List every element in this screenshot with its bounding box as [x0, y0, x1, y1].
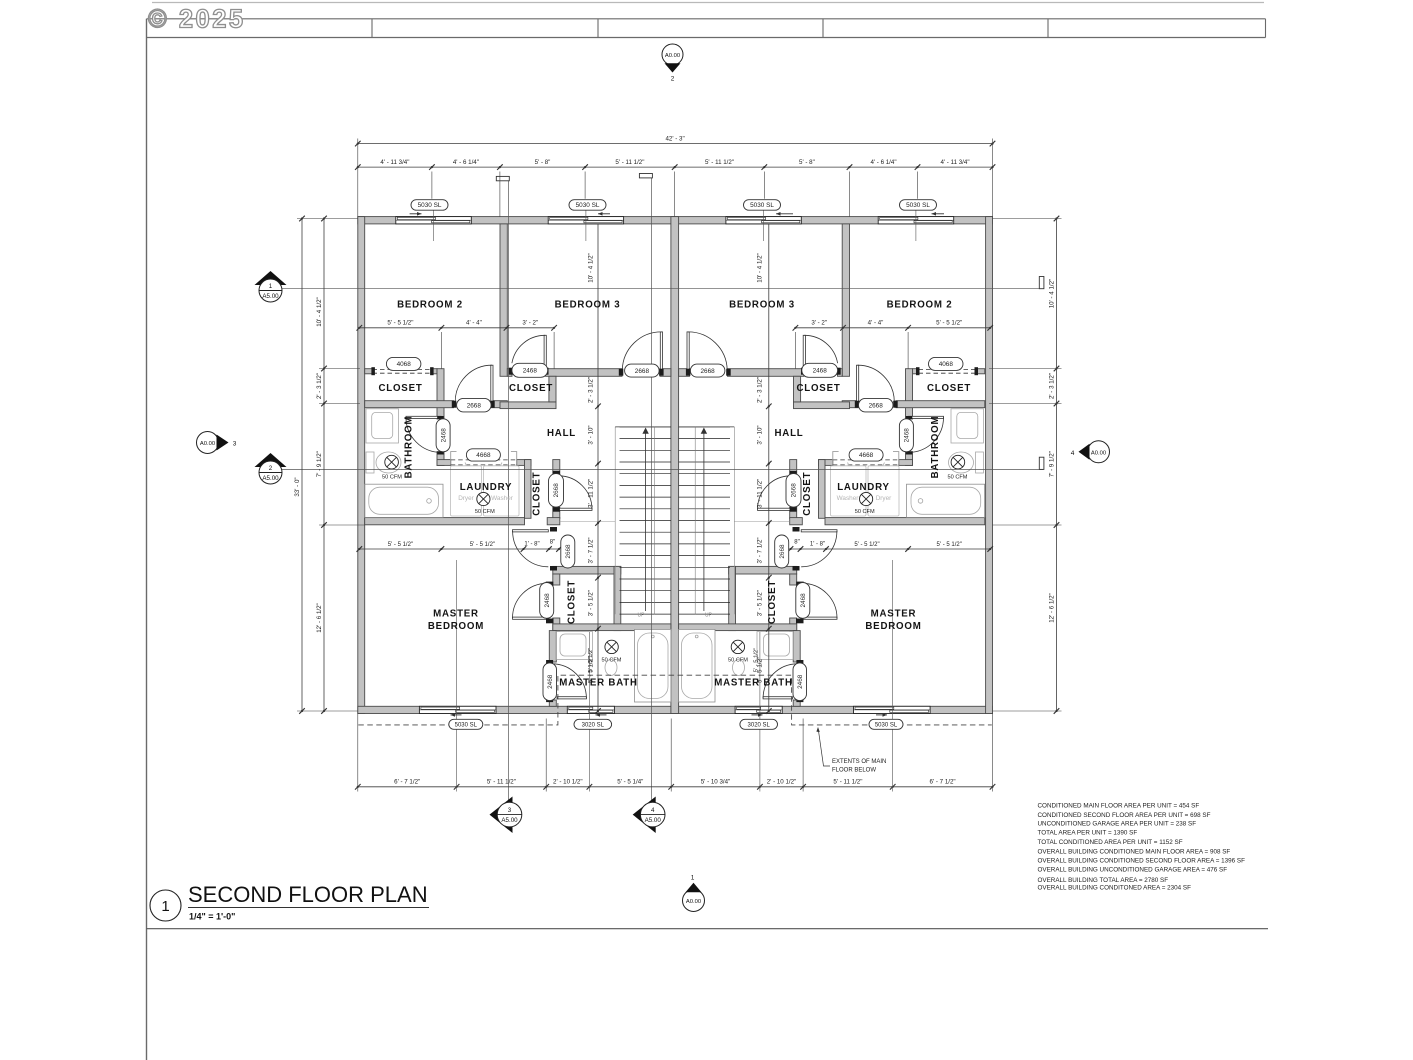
wall exterior left — [358, 217, 365, 714]
bathroom vanity u2 — [951, 409, 984, 443]
bathroom vanity u1 — [366, 409, 399, 443]
svg-text:2668: 2668 — [467, 402, 482, 409]
hall stair boundary line u2 — [734, 521, 789, 523]
svg-text:5' - 5 1/2": 5' - 5 1/2" — [936, 320, 962, 327]
master bath vanity u1 — [557, 632, 593, 660]
svg-text:5' - 5 1/4": 5' - 5 1/4" — [617, 779, 643, 786]
svg-text:EXTENTS OF MAIN: EXTENTS OF MAIN — [832, 759, 886, 765]
wall hall closet east upper u1 — [553, 460, 560, 475]
svg-text:A5.00: A5.00 — [262, 293, 279, 300]
svg-text:2668: 2668 — [791, 483, 798, 498]
wall closet-corridor divider upper u2 — [906, 369, 913, 419]
door bifold 4068 closet dashed u1 — [373, 368, 432, 370]
svg-text:50 CFM: 50 CFM — [602, 658, 622, 664]
svg-text:10' - 4 1/2": 10' - 4 1/2" — [316, 297, 323, 327]
callout marker A0.00 1 bottom — [683, 890, 705, 912]
svg-text:TOTAL CONDITIONED AREA PER UNI: TOTAL CONDITIONED AREA PER UNIT = 1152 S… — [1038, 839, 1183, 846]
svg-text:2468: 2468 — [440, 428, 447, 443]
label window 5030 SL u1 right — [569, 200, 606, 211]
svg-text:A0.00: A0.00 — [665, 53, 680, 59]
door 2468 bedroom3 closet u2 — [803, 335, 805, 368]
stairs treads u2 — [679, 426, 730, 428]
svg-text:33' - 0": 33' - 0" — [294, 477, 301, 496]
dimension right extension lines — [993, 218, 1062, 220]
svg-text:4068: 4068 — [397, 361, 412, 368]
svg-text:CONDITIONED SECOND FLOOR AREA: CONDITIONED SECOND FLOOR AREA PER UNIT =… — [1038, 812, 1211, 819]
svg-text:1' - 8": 1' - 8" — [810, 542, 825, 548]
svg-text:FLOOR BELOW: FLOOR BELOW — [832, 768, 876, 774]
label door 2668 bed3 u2 — [690, 364, 725, 377]
svg-text:CLOSET: CLOSET — [802, 472, 813, 516]
label window 5030 SL bottom u1 — [449, 719, 483, 729]
wall corridor south stub u2 — [842, 401, 858, 408]
svg-text:7' - 9 1/2": 7' - 9 1/2" — [316, 451, 323, 477]
label door 2668 bed2 u2 — [859, 398, 894, 412]
stairs up arrow u1 — [645, 430, 647, 611]
svg-text:© 2025: © 2025 — [148, 6, 246, 34]
dimension top segments — [358, 166, 993, 168]
svg-text:CLOSET: CLOSET — [532, 472, 543, 516]
label door 2668 master bedroom u2 — [775, 535, 789, 568]
svg-text:2: 2 — [269, 465, 273, 472]
svg-text:BEDROOM 2: BEDROOM 2 — [397, 300, 463, 311]
svg-text:50 CFM: 50 CFM — [382, 475, 402, 481]
svg-text:5' - 11 1/2": 5' - 11 1/2" — [833, 779, 862, 786]
svg-text:10' - 4 1/2": 10' - 4 1/2" — [757, 253, 764, 283]
callout marker A0.00 3 left — [197, 432, 219, 454]
svg-text:OVERALL BUILDING UNCONDITIONED: OVERALL BUILDING UNCONDITIONED GARAGE AR… — [1038, 867, 1228, 874]
wall bed3 closet east u1 — [549, 376, 556, 402]
svg-text:OVERALL BUILDING TOTAL AREA =: OVERALL BUILDING TOTAL AREA = 2780 SF — [1038, 877, 1169, 884]
door 2468 master closet u1 — [513, 617, 548, 619]
wall master bedroom north u2 — [825, 518, 985, 525]
wall laundry north stub right u1 — [517, 460, 531, 466]
svg-text:4068: 4068 — [939, 361, 954, 368]
svg-text:2' - 3 1/2": 2' - 3 1/2" — [757, 377, 764, 403]
svg-text:BATHROOM: BATHROOM — [404, 416, 415, 479]
svg-text:5030 SL: 5030 SL — [455, 722, 478, 728]
svg-text:8": 8" — [550, 540, 555, 546]
svg-text:2668: 2668 — [779, 544, 786, 559]
stairs walk line u2 — [694, 427, 696, 614]
svg-text:3' - 7 1/2": 3' - 7 1/2" — [757, 537, 764, 563]
svg-text:2668: 2668 — [635, 368, 650, 375]
svg-text:5' - 8": 5' - 8" — [535, 159, 551, 166]
svg-text:2468: 2468 — [544, 593, 551, 608]
wall hall north mid u1 — [546, 369, 622, 377]
svg-text:12' - 6 1/2": 12' - 6 1/2" — [1048, 593, 1055, 623]
master bath exhaust fan u1 — [605, 640, 618, 653]
svg-text:3' - 2": 3' - 2" — [811, 320, 827, 327]
wall party center — [671, 217, 679, 714]
section line 2 horizontal — [282, 468, 1043, 470]
dimension left extension lines — [297, 218, 358, 220]
dimension hall vertical u2 — [768, 224, 770, 406]
svg-text:2668: 2668 — [700, 368, 715, 375]
svg-text:5030 SL: 5030 SL — [875, 722, 898, 728]
label door 2468 bed3 closet u1 — [512, 363, 548, 377]
door 2468 bathroom u2 — [909, 416, 944, 418]
dimension master bedroom interior u2 — [791, 548, 991, 550]
callout marker A0.00 2 top — [662, 44, 683, 65]
svg-text:10' - 4 1/2": 10' - 4 1/2" — [1048, 279, 1055, 309]
wall closet jamb stub left u2 — [977, 369, 985, 374]
laundry exhaust fan u2 — [860, 492, 873, 505]
svg-text:BEDROOM: BEDROOM — [428, 621, 484, 632]
svg-text:5030 SL: 5030 SL — [750, 202, 774, 209]
label door 2668 hall closet u2 — [786, 474, 801, 508]
svg-text:2468: 2468 — [813, 368, 828, 375]
master bath toilet u2 — [733, 660, 745, 676]
wall master closet east u1 — [614, 566, 621, 630]
door 2668 bedroom3 entry u2 — [687, 332, 689, 370]
label door 2668 hall closet u1 — [549, 474, 564, 508]
wall bed3 closet south u2 — [794, 402, 850, 409]
svg-text:Washer: Washer — [491, 495, 514, 502]
label door 2468 bathroom u2 — [899, 419, 913, 452]
svg-text:3' - 10": 3' - 10" — [588, 425, 595, 444]
master bath toilet u1 — [605, 660, 617, 676]
dashed extents of main floor below — [358, 675, 992, 725]
svg-text:CLOSET: CLOSET — [767, 580, 778, 624]
wall bed3 closet east u2 — [794, 376, 801, 402]
svg-text:2' - 10 1/2": 2' - 10 1/2" — [767, 779, 797, 786]
svg-text:2668: 2668 — [553, 483, 560, 498]
extents leader arrow — [819, 732, 830, 767]
laundry washer dryer u2 — [868, 466, 899, 516]
window 5030 SL bedroom2 u1 — [396, 217, 472, 224]
door 2668 hall closet u2 — [758, 508, 792, 510]
svg-text:5' - 5 1/2": 5' - 5 1/2" — [588, 648, 594, 672]
stairs side line u1 — [614, 427, 616, 614]
dimension bedroom interior u1 — [359, 327, 554, 329]
svg-text:BEDROOM: BEDROOM — [865, 621, 921, 632]
window centerlines bottom — [456, 560, 458, 719]
wall master closet west upper u2 — [790, 574, 797, 585]
dimension left segments — [323, 219, 325, 712]
svg-text:3' - 5 1/2": 3' - 5 1/2" — [588, 590, 595, 616]
door bifold 4668 laundry u1 — [451, 459, 517, 461]
svg-text:Dryer: Dryer — [876, 495, 892, 502]
svg-text:4' - 11 3/4": 4' - 11 3/4" — [940, 159, 969, 166]
wall hall north stub A u2 — [838, 369, 843, 377]
stairs up arrow u2 — [703, 430, 705, 611]
svg-text:5030 SL: 5030 SL — [418, 202, 442, 209]
svg-text:A5.00: A5.00 — [645, 817, 662, 824]
label door 2668 master bedroom u1 — [561, 535, 575, 568]
svg-text:3: 3 — [508, 807, 512, 814]
section line 3 vertical — [507, 181, 509, 802]
door 2668 master bedroom u2 — [801, 530, 837, 532]
svg-text:3020 SL: 3020 SL — [582, 722, 605, 728]
wall master bath west lower u1 — [549, 700, 556, 706]
svg-text:UP: UP — [705, 613, 713, 619]
door 2468 bathroom u1 — [406, 416, 441, 418]
door 2668 master bedroom u1 — [513, 530, 549, 532]
svg-text:2: 2 — [671, 76, 675, 83]
section 4 top flag — [639, 174, 652, 178]
wall closet-corridor divider lower u1 — [437, 452, 444, 466]
wall master bath west upper u1 — [549, 631, 556, 662]
section line 1 horizontal — [282, 288, 1043, 290]
stairs walk line u1 — [653, 427, 655, 614]
label door 2468 bathroom u1 — [436, 419, 450, 452]
svg-text:3' - 5 1/2": 3' - 5 1/2" — [757, 590, 764, 616]
svg-text:4: 4 — [651, 807, 655, 814]
label door 2668 bed3 u1 — [625, 364, 660, 377]
svg-text:4' - 11 3/4": 4' - 11 3/4" — [380, 159, 409, 166]
title band bottom line — [147, 37, 1266, 39]
svg-text:4: 4 — [1071, 450, 1075, 457]
svg-text:3' - 11 1/2": 3' - 11 1/2" — [588, 479, 595, 508]
svg-text:Dryer: Dryer — [458, 495, 474, 502]
svg-text:3020 SL: 3020 SL — [748, 722, 771, 728]
svg-text:A0.00: A0.00 — [686, 899, 701, 905]
svg-text:2668: 2668 — [869, 402, 884, 409]
door 2468 master closet u2 — [802, 617, 837, 619]
svg-text:UP: UP — [638, 613, 646, 619]
svg-text:A5.00: A5.00 — [501, 817, 518, 824]
svg-text:50 CFM: 50 CFM — [475, 509, 495, 515]
wall exterior top — [358, 217, 993, 224]
door bifold 4068 closet dashed u2 — [919, 368, 978, 370]
svg-text:CLOSET: CLOSET — [927, 383, 971, 394]
svg-text:5' - 5 1/2": 5' - 5 1/2" — [388, 542, 413, 548]
svg-text:MASTER: MASTER — [433, 609, 479, 620]
svg-text:4' - 6 1/4": 4' - 6 1/4" — [453, 159, 479, 166]
dimension bedroom interior u2 — [795, 327, 990, 329]
svg-text:2' - 10 1/2": 2' - 10 1/2" — [553, 779, 583, 786]
svg-text:42' - 3": 42' - 3" — [665, 135, 684, 142]
svg-text:10' - 4 1/2": 10' - 4 1/2" — [588, 253, 595, 283]
title band dividers — [371, 19, 373, 38]
svg-text:CLOSET: CLOSET — [796, 383, 840, 394]
wall master closet west lower u1 — [553, 618, 560, 631]
laundry exhaust fan u1 — [477, 492, 490, 505]
door 2668 hall closet u1 — [559, 508, 593, 510]
svg-text:12' - 6 1/2": 12' - 6 1/2" — [316, 603, 323, 633]
wall hall closet east upper u2 — [790, 460, 797, 475]
svg-text:3: 3 — [233, 441, 237, 448]
stairs treads u1 — [620, 426, 671, 428]
hall stair boundary line u1 — [560, 521, 615, 523]
wall corridor south stub u1 — [492, 401, 508, 408]
svg-text:HALL: HALL — [547, 428, 576, 439]
svg-text:OVERALL BUILDING CONDITONED AR: OVERALL BUILDING CONDITONED AREA = 2304 … — [1038, 884, 1192, 891]
svg-text:CLOSET: CLOSET — [509, 383, 553, 394]
label window 5030 SL u1 left — [411, 200, 448, 211]
svg-text:MASTER: MASTER — [871, 609, 917, 620]
svg-text:HALL: HALL — [774, 428, 803, 439]
svg-text:5' - 5 1/2": 5' - 5 1/2" — [470, 542, 495, 548]
wall laundry-closet divider u1 — [525, 460, 532, 519]
svg-text:8": 8" — [794, 540, 799, 546]
label window arrows top — [410, 213, 422, 215]
svg-text:6' - 7 1/2": 6' - 7 1/2" — [394, 779, 420, 786]
svg-text:A0.00: A0.00 — [200, 441, 215, 447]
label door 4668 laundry u2 — [849, 449, 883, 461]
wall master closet west lower u2 — [790, 618, 797, 631]
door bifold 4668 laundry u2 — [833, 459, 899, 461]
svg-text:2' - 3 1/2": 2' - 3 1/2" — [316, 373, 323, 399]
svg-text:1: 1 — [161, 898, 169, 915]
master bath exhaust fan u2 — [731, 640, 744, 653]
wall closet jamb stub left u1 — [365, 369, 373, 374]
label door 4068 u1 — [386, 357, 421, 370]
svg-text:LAUNDRY: LAUNDRY — [837, 482, 890, 493]
svg-text:7' - 9 1/2": 7' - 9 1/2" — [1048, 451, 1055, 477]
label door 4668 laundry u1 — [466, 449, 500, 461]
master bath tub u2 — [679, 629, 715, 702]
door 2668 bedroom3 entry u1 — [660, 332, 662, 370]
svg-text:4' - 4": 4' - 4" — [868, 320, 884, 327]
window 5030 SL master bedroom u1 — [419, 706, 496, 713]
svg-text:50 CFM: 50 CFM — [948, 475, 968, 481]
wall closet-corridor divider upper u1 — [437, 369, 444, 419]
svg-text:5' - 10 3/4": 5' - 10 3/4" — [701, 779, 731, 786]
svg-text:BEDROOM 2: BEDROOM 2 — [887, 300, 953, 311]
svg-text:5030 SL: 5030 SL — [906, 202, 930, 209]
wall laundry-closet divider u2 — [819, 460, 826, 519]
window 5030 SL bedroom2 u2 — [878, 217, 954, 224]
label window 5030 SL u2 left — [744, 200, 781, 211]
svg-text:BEDROOM 3: BEDROOM 3 — [555, 300, 621, 311]
wall closet-corridor divider lower u2 — [906, 452, 913, 466]
svg-text:CLOSET: CLOSET — [378, 383, 422, 394]
svg-text:50 CFM: 50 CFM — [728, 658, 748, 664]
svg-text:4668: 4668 — [859, 452, 874, 459]
title drawing number circle — [150, 890, 181, 921]
callout marker A0.00 4 right — [1088, 441, 1110, 463]
sheet left border — [146, 19, 148, 1060]
svg-text:2468: 2468 — [797, 674, 804, 689]
wall master bath west lower u2 — [793, 700, 800, 706]
door 2468 bedroom3 closet u1 — [544, 335, 546, 368]
svg-text:2668: 2668 — [565, 544, 572, 559]
svg-text:OVERALL BUILDING CONDITIONED S: OVERALL BUILDING CONDITIONED SECOND FLOO… — [1038, 857, 1246, 864]
dimension right segments — [1056, 219, 1058, 712]
label window arrows bottom — [451, 714, 462, 716]
wall hall closet east lower u2 — [790, 507, 797, 518]
svg-text:4' - 6 1/4": 4' - 6 1/4" — [870, 159, 896, 166]
dimension hall vertical u1 — [597, 224, 599, 406]
wall stair-bath south u2 — [679, 624, 797, 631]
wall master closet west upper u1 — [553, 574, 560, 585]
section line 4 vertical — [651, 178, 653, 802]
wall master bath west upper u2 — [793, 631, 800, 662]
svg-text:2' - 3 1/2": 2' - 3 1/2" — [588, 377, 595, 403]
section 2 right flag — [1039, 457, 1044, 469]
section 1 right flag — [1039, 277, 1044, 289]
window centerlines top — [433, 211, 435, 242]
svg-text:Washer: Washer — [837, 495, 860, 502]
wall hall north stub B u2 — [679, 369, 690, 377]
wall hall closet east lower u1 — [553, 507, 560, 518]
window 5030 SL master bedroom u2 — [854, 706, 931, 713]
svg-text:6' - 7 1/2": 6' - 7 1/2" — [930, 779, 956, 786]
label door 2468 master bath u1 — [543, 663, 557, 701]
wall bedroom divider u2 — [842, 224, 849, 376]
wall hall south stub u1 — [547, 518, 560, 525]
svg-text:3' - 2": 3' - 2" — [522, 320, 538, 327]
wall laundry north stub left u1 — [437, 460, 451, 466]
dimension master bedroom interior u1 — [359, 548, 559, 550]
svg-text:A5.00: A5.00 — [262, 475, 279, 482]
label window 5030 SL bottom u2 — [869, 719, 903, 729]
svg-text:OVERALL BUILDING CONDITIONED M: OVERALL BUILDING CONDITIONED MAIN FLOOR … — [1038, 848, 1231, 855]
svg-text:3' - 7 1/2": 3' - 7 1/2" — [588, 537, 595, 563]
label door 2468 master closet u1 — [540, 583, 554, 619]
dimension bottom extension lines — [357, 714, 359, 792]
wall master bedroom north u1 — [365, 518, 525, 525]
svg-text:1' - 8": 1' - 8" — [524, 542, 539, 548]
dimension overall 42'-3" top — [358, 143, 993, 145]
wall hall north stub B u1 — [660, 369, 671, 377]
wall hall north stub A u1 — [507, 369, 512, 377]
section 3 top flag — [496, 176, 509, 180]
svg-text:MASTER BATH: MASTER BATH — [714, 678, 793, 689]
svg-text:4' - 4": 4' - 4" — [466, 320, 482, 327]
svg-text:3' - 11 1/2": 3' - 11 1/2" — [757, 479, 764, 508]
label door 2668 bed2 u1 — [457, 398, 492, 412]
svg-text:4668: 4668 — [476, 452, 491, 459]
label door 2468 bed3 closet u2 — [802, 363, 838, 377]
svg-text:5' - 5 1/2": 5' - 5 1/2" — [387, 320, 413, 327]
svg-text:1: 1 — [691, 875, 695, 882]
label window 3020 SL bottom u1 — [574, 719, 612, 729]
section marker 4 A5.00 — [633, 797, 656, 834]
wall stair-bath south u1 — [553, 624, 671, 631]
wall closet south u2 — [896, 401, 985, 408]
master bath tub u1 — [635, 629, 671, 702]
wall bed3 closet south u1 — [500, 402, 556, 409]
svg-text:LAUNDRY: LAUNDRY — [460, 482, 513, 493]
svg-text:MASTER BATH: MASTER BATH — [559, 678, 638, 689]
window 5030 SL bedroom3 u2 — [726, 217, 801, 224]
svg-text:5' - 5 1/2": 5' - 5 1/2" — [937, 542, 962, 548]
svg-text:3' - 10": 3' - 10" — [757, 425, 764, 444]
section marker 1 A5.00 — [255, 271, 287, 285]
label window 5030 SL u2 right — [900, 200, 937, 211]
wall laundry north stub left u2 — [899, 460, 913, 466]
door 2468 master bath u1 — [557, 697, 586, 699]
label door 4068 u2 — [929, 357, 964, 370]
svg-text:5' - 5 1/2": 5' - 5 1/2" — [854, 542, 879, 548]
svg-text:5' - 8": 5' - 8" — [799, 159, 815, 166]
bathroom toilet u1 — [366, 452, 374, 473]
svg-text:A0.00: A0.00 — [1091, 450, 1106, 456]
dimension top extension lines — [431, 172, 433, 199]
svg-text:2' - 3 1/2": 2' - 3 1/2" — [1048, 373, 1055, 399]
wall closet jamb stub right u1 — [431, 369, 437, 374]
svg-text:5' - 11 1/2": 5' - 11 1/2" — [705, 159, 734, 166]
wall exterior right — [986, 217, 993, 714]
svg-text:1: 1 — [269, 283, 273, 290]
label door 2468 master closet u2 — [796, 583, 810, 619]
door 2668 bedroom2 entry u1 — [491, 365, 493, 402]
bathroom tub u1 — [365, 484, 443, 517]
svg-text:BEDROOM 3: BEDROOM 3 — [729, 300, 795, 311]
stairs side line u2 — [733, 427, 735, 614]
wall master closet north u2 — [729, 566, 797, 574]
svg-text:2468: 2468 — [904, 428, 911, 443]
dimension bottom segments — [358, 786, 993, 788]
svg-text:CLOSET: CLOSET — [567, 580, 578, 624]
svg-text:UNCONDITIONED GARAGE AREA PER: UNCONDITIONED GARAGE AREA PER UNIT = 238… — [1038, 821, 1197, 828]
svg-text:BATHROOM: BATHROOM — [930, 416, 941, 479]
svg-text:5030 SL: 5030 SL — [576, 202, 600, 209]
wall closet south u1 — [365, 401, 454, 408]
